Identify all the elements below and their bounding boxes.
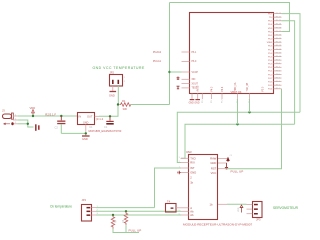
svg-text:XOUT: XOUT (192, 83, 199, 85)
svg-text:TCK_0B: TCK_0B (247, 82, 249, 91)
ground under regulator (82, 136, 90, 141)
net label raw rail (45, 112, 56, 116)
label GND VCC TEMPERATURE (93, 66, 146, 70)
IC U2 microcontroller box (190, 13, 274, 94)
svg-text:R2/3.1.F: R2/3.1.F (45, 112, 56, 116)
pin stub JP2 left to gnd (112, 86, 114, 91)
svg-text:VCCP: VCCP (192, 72, 199, 74)
glyph at U3 GND pin (225, 163, 228, 169)
IC U3 inside labels (190, 156, 196, 217)
label SERVOMOTEUR (273, 206, 299, 210)
wire servo signal from U3 (227, 203, 247, 205)
svg-text:1b: 1b (190, 181, 193, 185)
supply glyph at U3 RAW pin (226, 155, 233, 162)
IC U2 value text (231, 90, 242, 94)
svg-text:GND: GND (109, 93, 115, 97)
svg-text:XIN: XIN (192, 79, 196, 81)
svg-text:330: 330 (123, 107, 128, 111)
svg-text:P5.10: P5.10 (276, 56, 282, 58)
ground DGND under U2 (194, 100, 200, 105)
svg-text:VREF: VREF (267, 42, 273, 44)
node VDD tap (32, 115, 34, 117)
IC U2 bottom inside rotated labels (197, 82, 265, 91)
svg-text:GND: GND (82, 137, 88, 141)
IC U2 left inside labels (192, 52, 199, 90)
IC U3 left pin numbers (179, 157, 181, 216)
svg-text:C1: C1 (104, 125, 108, 129)
svg-text:A: A (190, 206, 192, 210)
wire XIN pin drop (237, 99, 239, 124)
wire H2 horizontal bus under U2 (181, 124, 295, 158)
regulator gnd pin (85, 125, 87, 136)
svg-text:VDD: VDD (268, 28, 273, 30)
wire IC U2 pin P6.3 to outer vertical (282, 14, 301, 113)
svg-text:GND: GND (194, 103, 199, 105)
svg-text:TDI: TDI (269, 17, 273, 19)
regulator out wire (95, 105, 118, 117)
wire temperature signal riser to U3 INT pin (155, 168, 182, 208)
ground glyph at U3 pin4 (178, 171, 181, 175)
svg-text:VCC: VCC (211, 171, 217, 175)
svg-text:Ck température: Ck température (50, 205, 72, 209)
ground at JP2 (109, 92, 116, 98)
svg-text:GND: GND (210, 161, 216, 165)
svg-text:MCP1805_EIA3528-KT0703: MCP1805_EIA3528-KT0703 (89, 129, 122, 133)
wire IC U2 pin TDI to inner vertical (282, 21, 295, 125)
svg-text:P5.20: P5.20 (276, 20, 282, 22)
svg-text:P5.18: P5.18 (276, 27, 282, 29)
pin stubs J3 (13, 114, 17, 124)
svg-text:P6.2/A2: P6.2/A2 (153, 51, 162, 54)
svg-text:P5.11: P5.11 (276, 52, 282, 54)
svg-text:AVSS: AVSS (197, 85, 200, 91)
label Ck temperature (50, 205, 72, 209)
pin stubs JP4 (92, 206, 99, 215)
svg-text:PULL UP: PULL UP (129, 229, 142, 233)
svg-text:P5.0: P5.0 (263, 86, 265, 91)
crystal pin glyphs at U2 left (177, 77, 180, 89)
svg-text:RXI: RXI (190, 161, 195, 165)
IC U3 right pin stubs (218, 159, 227, 205)
svg-text:C2: C2 (55, 126, 59, 130)
svg-text:U1: U1 (89, 125, 93, 129)
jack polarity dot (4, 122, 14, 125)
svg-text:GND: GND (190, 171, 196, 175)
wire R1 to VCC riser (131, 104, 170, 106)
wire temp pin2 to U3 (96, 210, 181, 212)
resistor R1 (120, 99, 133, 111)
IC U2 bottom pin stubs (192, 94, 250, 100)
svg-text:R1: R1 (122, 99, 126, 103)
svg-text:P5.16: P5.16 (276, 34, 282, 36)
svg-text:PULL UP: PULL UP (231, 169, 244, 173)
svg-text:P5.19: P5.19 (276, 24, 282, 26)
connector JP4 capteur temperature (82, 198, 92, 221)
svg-text:P6.0: P6.0 (192, 61, 197, 63)
node XOUT drop on H1 (248, 111, 250, 113)
svg-text:P4.4: P4.4 (222, 86, 224, 91)
svg-text:Ab: Ab (190, 210, 194, 214)
svg-text:INT: INT (190, 166, 195, 170)
svg-text:P5.21: P5.21 (276, 17, 282, 19)
node regulator gnd (85, 132, 87, 134)
node XIN drop on H2 (236, 123, 238, 125)
IC U$3 module box (186, 150, 218, 219)
svg-text:P5.17: P5.17 (276, 31, 282, 33)
ground pads at jack (35, 124, 40, 131)
label under U$3 module (183, 223, 252, 227)
wire H1 horizontal bus under U2 (177, 112, 300, 162)
dc jack J3 (2, 109, 13, 120)
pin stubs JP3 (247, 205, 253, 214)
svg-text:P5.13: P5.13 (276, 45, 282, 47)
label PULL UP near U3 (231, 169, 244, 173)
wire main rail jack to regulator (17, 115, 77, 117)
IC U2 left pin stubs (182, 52, 190, 88)
wire pullup bottoms (113, 225, 139, 232)
svg-text:P5.12: P5.12 (276, 49, 282, 51)
svg-text:VDD: VDD (30, 106, 36, 110)
supply VDD symbol (30, 106, 36, 116)
node pullup R5 tap (125, 210, 127, 212)
svg-text:IN: IN (79, 114, 82, 118)
svg-text:GND: GND (83, 121, 89, 124)
svg-text:SERVOMOTEUR: SERVOMOTEUR (273, 206, 299, 210)
node C2 tap (60, 115, 62, 117)
svg-text:(3.1.2: (3.1.2 (96, 117, 104, 121)
svg-text:TXO: TXO (190, 156, 196, 160)
wire temp pin1 (96, 207, 155, 209)
supply arrow at servo (238, 205, 243, 213)
svg-text:Ab: Ab (190, 213, 194, 217)
svg-text:P5.15: P5.15 (276, 38, 282, 40)
ground AGND under U2 (189, 100, 195, 105)
svg-text:VDD: VDD (238, 207, 240, 212)
svg-text:GND: GND (189, 103, 194, 105)
node pullup R4 tap (112, 214, 114, 216)
svg-text:OUT: OUT (87, 114, 93, 118)
capacitor C2 (55, 116, 66, 133)
wire cap bottom to regulator gnd (61, 132, 86, 134)
wire jack pin2 down (17, 120, 33, 127)
label PULL UP bottom (129, 229, 142, 233)
wire VCC riser from R1 to top rail (169, 3, 171, 105)
svg-text:P6.1: P6.1 (192, 52, 197, 54)
svg-text:1b: 1b (210, 202, 213, 206)
IC U3 left pin stubs (181, 158, 189, 215)
resistor R4 vertical (111, 215, 117, 229)
wire jack pin3 (17, 123, 28, 125)
wire pull-up net from U2 last pin down to U3 (227, 89, 282, 169)
net label 3.1.2 (96, 117, 104, 121)
svg-text:P6.1/A1: P6.1/A1 (153, 60, 162, 63)
wire DVCC pin to riser (170, 71, 182, 73)
svg-text:JP2: JP2 (110, 71, 115, 75)
svg-text:RST: RST (211, 167, 217, 171)
node reg out / C1 (109, 115, 111, 117)
resistor R5 vertical (122, 211, 128, 225)
capacitor C1 (104, 116, 114, 129)
IC U2 left pin names outside (153, 51, 162, 63)
node VCC pin junction (168, 71, 170, 73)
svg-text:JP4: JP4 (82, 198, 87, 202)
svg-text:RAW: RAW (210, 156, 217, 160)
connector JP3 servomoteur (253, 202, 263, 222)
svg-text:U$3: U$3 (186, 150, 192, 154)
svg-text:GND VCC TEMPERATURE: GND VCC TEMPERATURE (93, 66, 146, 70)
IC U2 right pin numbers (276, 13, 282, 90)
wire XOUT pin drop (249, 99, 251, 112)
pin stub U4 to U3 (176, 207, 189, 209)
svg-text:P4.3: P4.3 (211, 86, 213, 91)
svg-text:P5.22: P5.22 (276, 13, 282, 15)
wire JP2 right pin down to R1 (117, 86, 119, 105)
node R1 junction (117, 103, 119, 105)
node jack gnd (27, 123, 29, 125)
svg-text:VBAT OK: VBAT OK (231, 90, 242, 94)
svg-text:P5.14: P5.14 (276, 42, 282, 44)
regulator U1 box (78, 113, 122, 133)
wire temp pin3 to U3 (96, 214, 181, 216)
wire VCC top rail (170, 3, 290, 32)
connector JP2 temperature header (110, 71, 126, 87)
svg-text:MODULE-RECEPTEUR-ULTRASON-DYP-: MODULE-RECEPTEUR-ULTRASON-DYP-ME007 (183, 223, 252, 227)
switch U4 small box (166, 199, 177, 212)
IC U2 right pin stubs (274, 14, 282, 89)
svg-text:JP3: JP3 (256, 218, 261, 222)
IC U2 bottom pin numbers (202, 99, 251, 103)
IC U2 right pin names (267, 13, 273, 90)
